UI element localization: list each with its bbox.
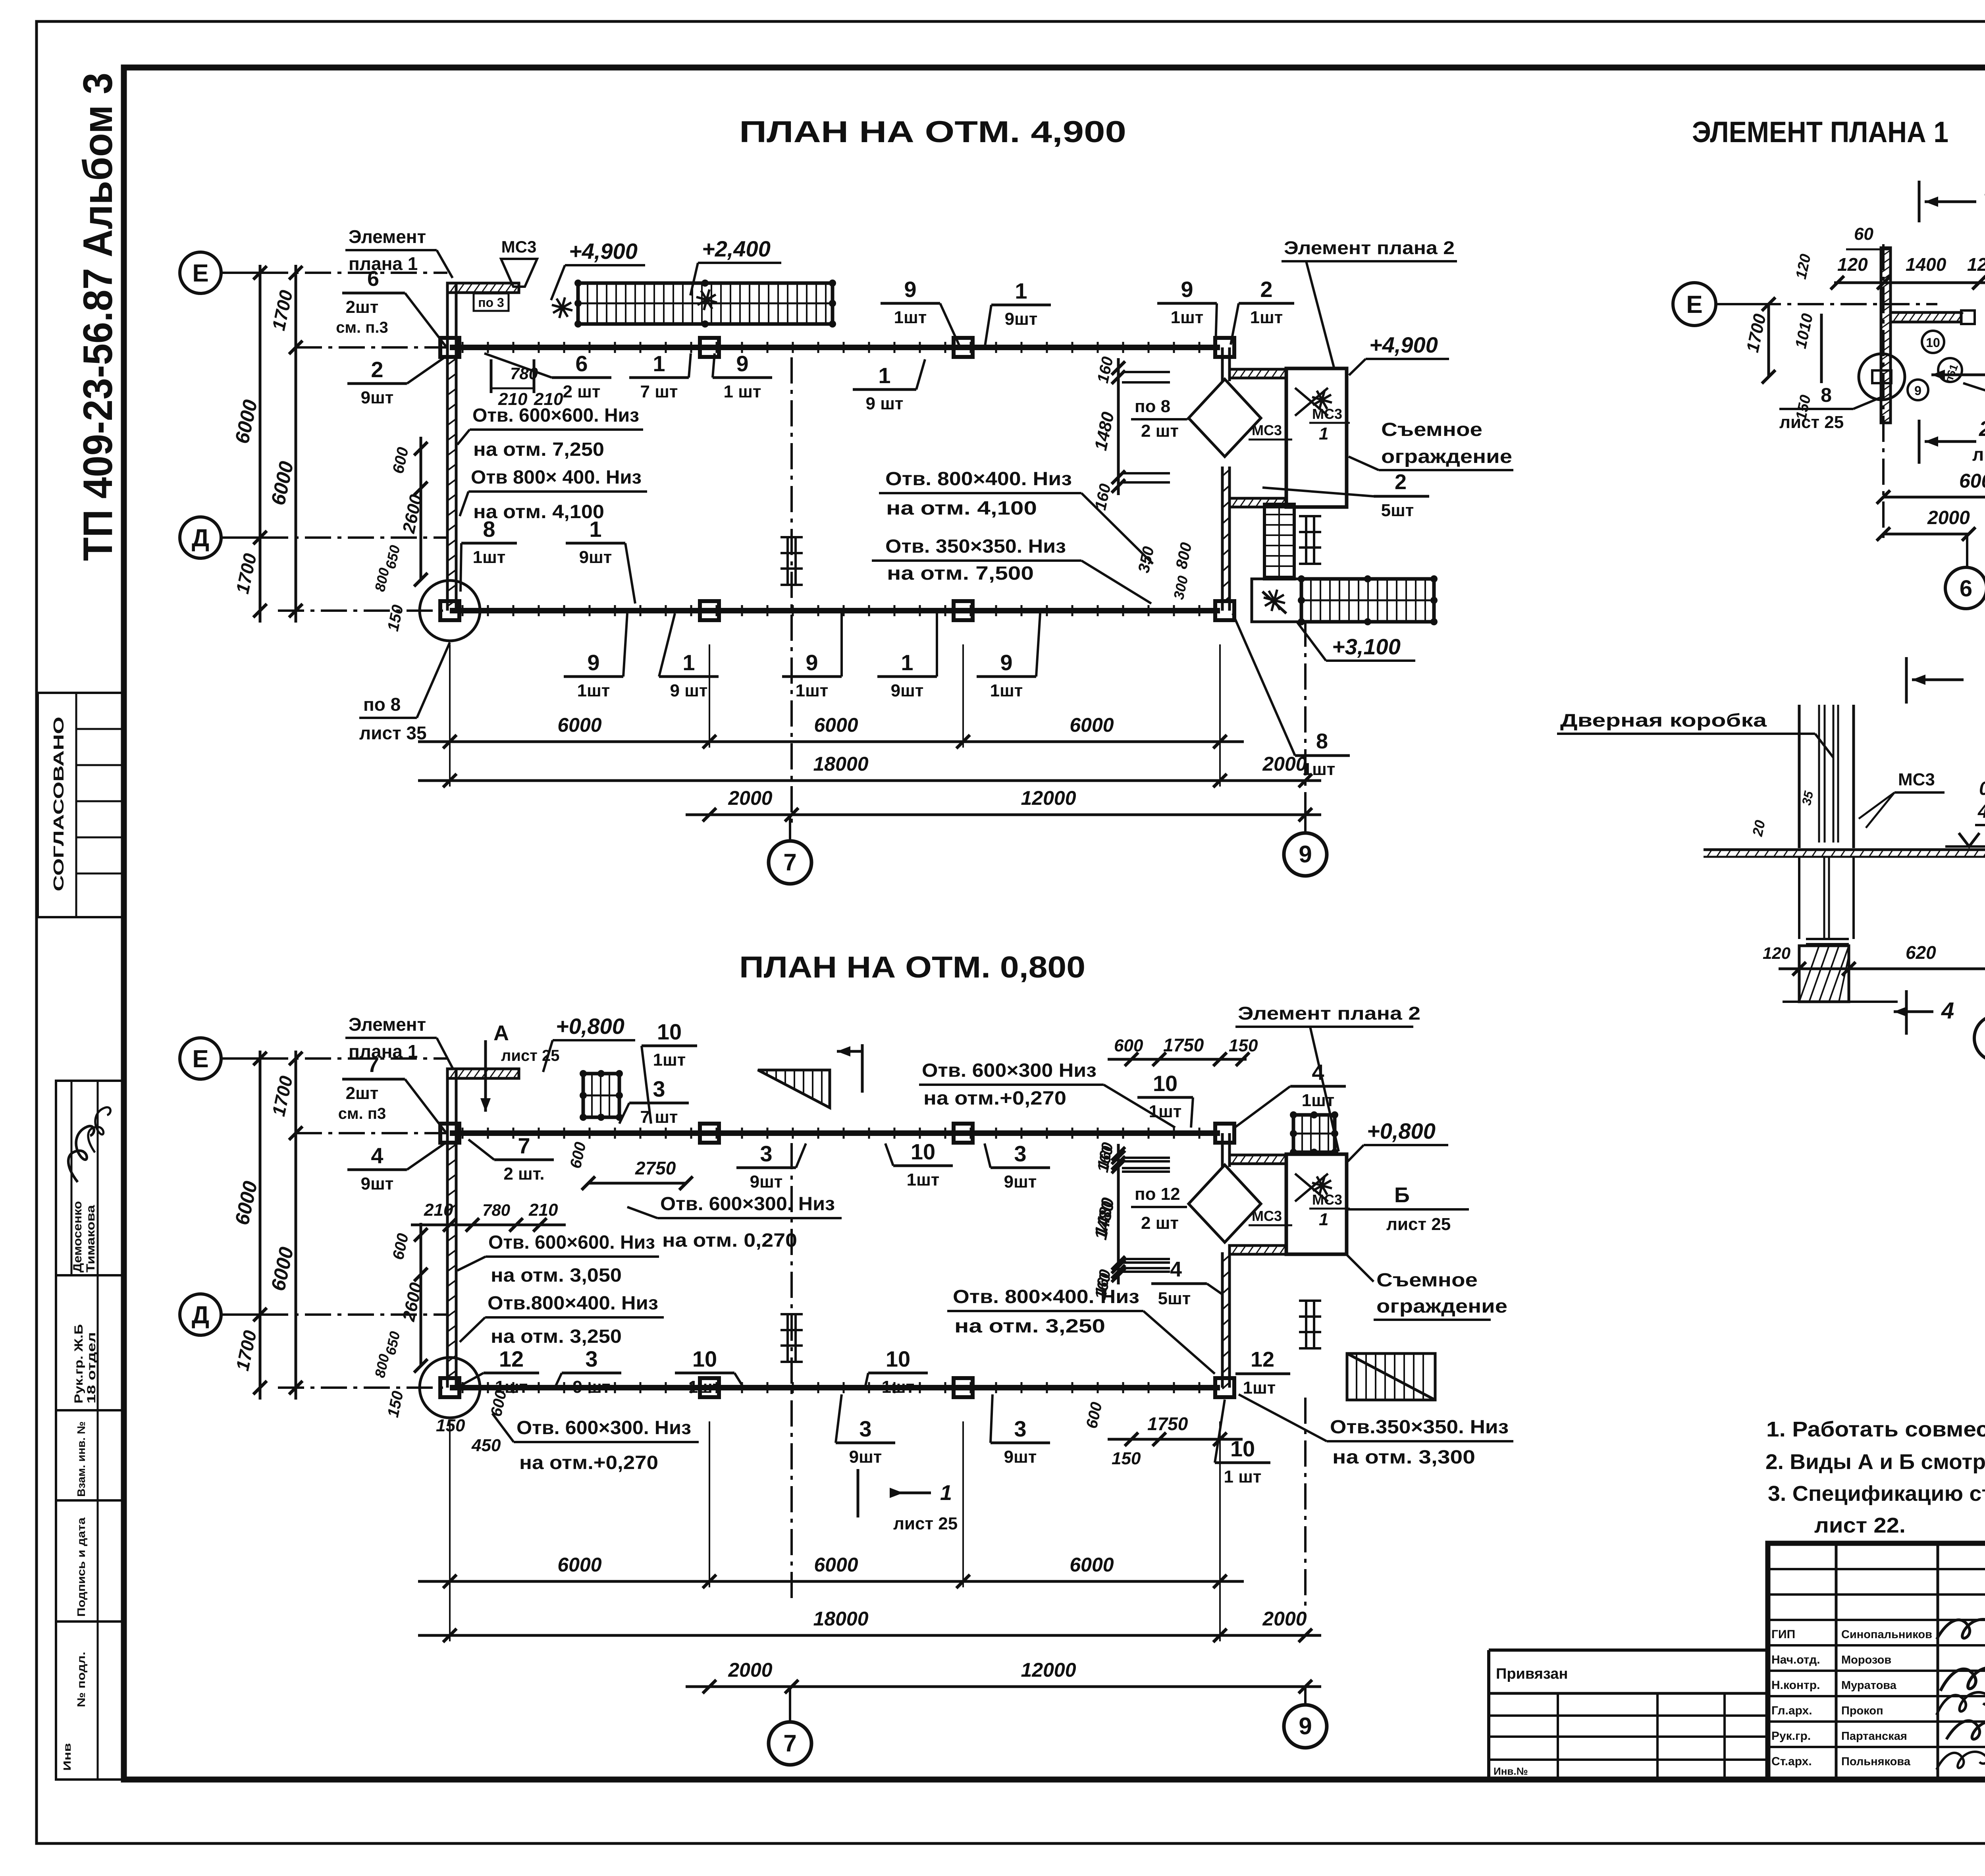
snowflake on platform [1312, 397, 1332, 403]
svg-text:5шт: 5шт [1381, 501, 1414, 520]
triangle grate top middle [758, 1070, 830, 1108]
svg-text:1шт: 1шт [577, 681, 610, 700]
column bottom axis 3 [954, 601, 973, 620]
svg-text:МС3: МС3 [1252, 1208, 1282, 1224]
svg-text:А: А [493, 1021, 509, 1045]
corner column bottom-left with circle [440, 1378, 459, 1397]
section mark 1 list 25 [857, 1469, 860, 1517]
UPPER PLAN plan at +4.900 [180, 226, 1513, 884]
stamp column lines [1835, 1543, 1838, 1780]
svg-text:Съемное: Съемное [1381, 419, 1482, 440]
svg-text:на отм. 3,250: на отм. 3,250 [491, 1326, 622, 1347]
svg-text:МС3: МС3 [1312, 1192, 1342, 1208]
svg-text:9: 9 [587, 650, 599, 675]
svg-text:6000: 6000 [1070, 1554, 1114, 1576]
corner column top-right [1215, 1124, 1234, 1143]
svg-text:4,900: 4,900 [1977, 801, 1985, 822]
svg-text:1 шт: 1 шт [724, 382, 761, 401]
H column on axis 7 [786, 537, 789, 585]
svg-text:Отв.350×350. Низ: Отв.350×350. Низ [1330, 1417, 1509, 1438]
axis line D [262, 1313, 447, 1316]
svg-text:ТП 409-23-56.87 Альбом 3: ТП 409-23-56.87 Альбом 3 [75, 73, 121, 561]
axis circle D [180, 1294, 221, 1335]
circled 10 [1922, 331, 1944, 353]
svg-text:ПЛАН НА ОТМ. 4,900: ПЛАН НА ОТМ. 4,900 [739, 115, 1126, 149]
column bottom axis 3 [954, 1378, 973, 1397]
axis line E [262, 1057, 447, 1060]
svg-text:9шт: 9шт [849, 1447, 882, 1467]
svg-text:1шт: 1шт [473, 548, 506, 567]
hatched pier [1799, 946, 1849, 1002]
section mark 2 list 25 bottom [1918, 420, 1921, 464]
wall axis line top [296, 1132, 447, 1134]
svg-text:9: 9 [736, 351, 748, 376]
svg-text:+2,400: +2,400 [702, 236, 771, 261]
svg-text:4: 4 [371, 1143, 383, 1168]
privyazan attach box [1489, 1648, 1768, 1652]
svg-text:Д: Д [192, 524, 209, 552]
svg-text:9: 9 [1181, 277, 1193, 302]
recess diamond [1189, 1165, 1261, 1242]
left wall [446, 1133, 449, 1388]
svg-text:Элемент: Элемент [349, 226, 426, 247]
dash-dot axis vertical detail1 [1882, 244, 1885, 540]
svg-text:3: 3 [585, 1346, 597, 1371]
svg-text:Элемент плана 2: Элемент плана 2 [1284, 237, 1455, 258]
svg-text:на отм.+0,270: на отм.+0,270 [923, 1088, 1066, 1109]
dimension chain 2000 / 12000 [686, 1685, 1321, 1688]
recess diamond [1189, 379, 1261, 457]
svg-text:7 шт: 7 шт [640, 1107, 678, 1127]
svg-text:0,800: 0,800 [1979, 778, 1985, 799]
top-left wall extension [446, 1069, 449, 1133]
svg-text:+4,900: +4,900 [1369, 332, 1438, 357]
svg-text:+0,800: +0,800 [1367, 1118, 1436, 1143]
svg-text:лист 25: лист 25 [1779, 413, 1844, 432]
svg-text:Отв 800× 400. Низ: Отв 800× 400. Низ [471, 467, 642, 488]
svg-text:60: 60 [1854, 224, 1873, 244]
svg-text:1: 1 [940, 1481, 952, 1505]
svg-text:1750: 1750 [1163, 1035, 1204, 1055]
svg-text:10: 10 [657, 1019, 682, 1044]
svg-text:1шт: 1шт [1303, 760, 1336, 779]
svg-text:2: 2 [1395, 470, 1407, 494]
svg-text:6000: 6000 [557, 714, 601, 736]
svg-text:на отм. 7,500: на отм. 7,500 [887, 563, 1034, 584]
svg-text:9: 9 [1299, 1713, 1312, 1739]
svg-text:Прокоп: Прокоп [1841, 1704, 1883, 1717]
dimension chain 18000 / 2000 [418, 1634, 1321, 1637]
platform top hatched band [1230, 1155, 1286, 1164]
svg-text:2000: 2000 [728, 787, 772, 809]
svg-text:150: 150 [1229, 1036, 1258, 1055]
removable platform [1286, 1154, 1347, 1254]
svg-text:2 шт: 2 шт [1141, 1213, 1179, 1233]
ruk.gr. box [56, 1275, 124, 1410]
svg-text:9: 9 [1299, 841, 1312, 868]
svg-text:1шт: 1шт [796, 681, 829, 700]
circled P61 [1938, 358, 1962, 382]
svg-text:1шт: 1шт [882, 1377, 915, 1397]
svg-text:на отм. 3,300: на отм. 3,300 [1332, 1447, 1475, 1468]
section mark 4 bottom [1905, 990, 1908, 1035]
svg-text:3: 3 [760, 1141, 772, 1166]
svg-text:1: 1 [682, 650, 695, 675]
axis circle E [180, 1038, 221, 1079]
right wall [1221, 347, 1224, 381]
svg-text:9: 9 [904, 277, 916, 302]
second vertical dimension line 1700/6000 [295, 265, 297, 623]
axis circle 6 [1966, 534, 1968, 567]
platform bottom hatched band [1230, 1246, 1286, 1254]
notes list [1765, 1417, 1985, 1537]
stair grating top [578, 283, 833, 324]
column top axis 2 [700, 1124, 719, 1143]
bottom platform with snowflake [1252, 579, 1301, 622]
soglasovano box [38, 693, 124, 917]
svg-text:см. п.3: см. п.3 [336, 319, 388, 336]
svg-text:Рук.гр. Ж.Б: Рук.гр. Ж.Б [72, 1324, 85, 1404]
svg-text:2 шт: 2 шт [1141, 421, 1179, 441]
axis line E [262, 272, 447, 274]
top-left wall extension [446, 283, 449, 347]
svg-text:по 12: по 12 [1135, 1184, 1180, 1204]
7 axis line [790, 1143, 793, 1602]
svg-text:6: 6 [1960, 576, 1972, 602]
svg-text:10: 10 [692, 1346, 717, 1371]
svg-text:9шт: 9шт [1004, 1172, 1037, 1192]
svg-text:Е: Е [192, 1045, 208, 1073]
column bottom axis 2 [700, 1378, 719, 1397]
svg-text:МС3: МС3 [1898, 770, 1935, 789]
svg-text:9шт: 9шт [579, 548, 612, 567]
svg-text:5шт: 5шт [1158, 1289, 1191, 1308]
svg-text:9шт: 9шт [891, 681, 924, 700]
svg-text:7: 7 [783, 849, 796, 875]
floor line double [1704, 848, 1985, 851]
column top axis 3 [954, 338, 973, 357]
svg-text:Инв: Инв [61, 1743, 73, 1771]
bottom stair grating right [1301, 579, 1434, 622]
svg-text:9шт: 9шт [750, 1172, 783, 1192]
svg-text:2: 2 [1260, 277, 1272, 302]
svg-text:на отм.+0,270: на отм.+0,270 [519, 1452, 658, 1473]
po 3 label box [474, 293, 509, 311]
removable platform [1286, 368, 1347, 507]
svg-text:1. Работать совместно с листом: 1. Работать совместно с листом 25 [1766, 1417, 1985, 1441]
svg-text:1шт: 1шт [688, 1377, 721, 1397]
dimension chain 18000 / 2000 [418, 779, 1321, 782]
svg-text:ГИП: ГИП [1771, 1628, 1795, 1641]
svg-text:1шт: 1шт [894, 308, 927, 327]
svg-text:1: 1 [878, 363, 890, 388]
column top axis 2 [700, 338, 719, 357]
svg-text:Элемент плана 2: Элемент плана 2 [1238, 1003, 1420, 1024]
svg-text:на отм. 3,250: на отм. 3,250 [954, 1316, 1105, 1337]
svg-text:Отв. 800×400. Низ: Отв. 800×400. Низ [953, 1286, 1139, 1307]
triangle grate bottom right [1347, 1353, 1435, 1400]
axis circle E detail1 [1673, 283, 1716, 326]
svg-text:6: 6 [575, 351, 588, 376]
svg-text:6000: 6000 [1959, 470, 1985, 492]
svg-text:+0,800: +0,800 [556, 1014, 624, 1039]
svg-text:2750: 2750 [635, 1158, 676, 1178]
column flange [1806, 938, 1849, 940]
svg-text:7: 7 [367, 1053, 379, 1077]
svg-text:1750: 1750 [1147, 1413, 1188, 1434]
svg-text:Тимакова: Тимакова [84, 1205, 97, 1273]
svg-text:1шт: 1шт [907, 1170, 940, 1190]
svg-text:10: 10 [911, 1139, 935, 1164]
H column lower right [1305, 1301, 1307, 1348]
axis circle 7 [769, 1722, 811, 1765]
svg-text:1шт: 1шт [653, 1050, 686, 1070]
vertical dim 160 1480 160 [1117, 1144, 1120, 1281]
svg-text:+4,900: +4,900 [569, 239, 638, 264]
wall axis line bottom [278, 1386, 447, 1389]
svg-text:Синопальников: Синопальников [1841, 1628, 1932, 1641]
dimension chain 2000 / 12000 [686, 814, 1321, 816]
svg-text:Взам. инв. №: Взам. инв. № [75, 1421, 87, 1497]
svg-text:Подпись и дата: Подпись и дата [75, 1517, 87, 1617]
section mark 4 with arrow top [1905, 657, 1908, 704]
svg-text:9 шт: 9 шт [573, 1377, 611, 1397]
svg-text:Б: Б [1394, 1183, 1410, 1207]
svg-text:Муратова: Муратова [1841, 1679, 1897, 1692]
svg-text:18 отдел: 18 отдел [85, 1332, 98, 1404]
svg-text:Демосенко: Демосенко [71, 1201, 84, 1273]
svg-text:Е: Е [192, 260, 208, 287]
top wall [450, 1130, 1220, 1136]
X cross on platform [1295, 388, 1328, 416]
H column on axis 7 [786, 1314, 789, 1362]
svg-text:9шт: 9шт [361, 388, 394, 407]
svg-text:Отв. 600×600. Низ: Отв. 600×600. Низ [488, 1232, 655, 1253]
wall axis line bottom [278, 609, 447, 612]
vertical wall hatched detail1 [1881, 248, 1891, 423]
svg-text:18000: 18000 [813, 753, 868, 775]
svg-text:Отв. 600×300. Низ: Отв. 600×300. Низ [516, 1417, 691, 1438]
svg-text:9: 9 [806, 650, 818, 675]
svg-text:Привязан: Привязан [1496, 1666, 1568, 1682]
svg-text:1шт: 1шт [990, 681, 1023, 700]
signature box [56, 1081, 124, 1275]
corner column bottom-right [1215, 1378, 1234, 1397]
svg-text:9шт: 9шт [361, 1174, 394, 1193]
axis circle 9 [1284, 833, 1327, 876]
svg-text:по 8: по 8 [1135, 397, 1170, 416]
snowflake on platform [1312, 1183, 1332, 1188]
stair grate above platform lower [1293, 1115, 1335, 1152]
inv no podl box [56, 1621, 124, 1780]
svg-text:на отм. 3,050: на отм. 3,050 [491, 1265, 622, 1286]
platform top hatched band [1230, 369, 1286, 378]
DETAIL node 1 door frame section [1557, 640, 1985, 1061]
svg-text:1шт: 1шт [1243, 1378, 1276, 1398]
svg-text:4: 4 [1941, 998, 1954, 1024]
svg-text:210: 210 [528, 1200, 558, 1220]
svg-text:Партанская: Партанская [1841, 1730, 1907, 1743]
svg-text:9шт: 9шт [1004, 1447, 1037, 1467]
horizontal wall hatched detail1 [1891, 312, 1961, 322]
svg-text:7: 7 [518, 1133, 530, 1158]
svg-text:1шт: 1шт [1250, 308, 1283, 327]
svg-text:Отв. 350×350. Низ: Отв. 350×350. Низ [885, 536, 1066, 557]
snowflake mark [552, 305, 572, 310]
svg-text:12: 12 [1251, 1348, 1274, 1371]
DETAIL element plana 1 [1673, 174, 1985, 609]
axis line E detail1 [1755, 303, 1937, 305]
horizontal dimension chain 6000x3 [418, 740, 1244, 743]
signatures scribbles stamp [1935, 1614, 1985, 1642]
svg-text:3: 3 [653, 1076, 665, 1101]
svg-text:лист 25: лист 25 [893, 1514, 958, 1533]
svg-text:210: 210 [424, 1200, 453, 1220]
svg-text:Отв. 600×600. Низ: Отв. 600×600. Низ [472, 405, 639, 426]
svg-text:Н.контр.: Н.контр. [1771, 1679, 1820, 1692]
svg-text:МС3: МС3 [1252, 422, 1282, 438]
squiggle arrow on platform [1262, 592, 1286, 613]
svg-text:12: 12 [499, 1346, 524, 1371]
column web below floor [1798, 857, 1800, 939]
left wall [446, 347, 449, 611]
vzam inv box [56, 1410, 124, 1500]
corner column bottom-right [1215, 601, 1234, 620]
svg-text:МС3: МС3 [1312, 406, 1342, 422]
svg-text:8: 8 [483, 517, 495, 542]
svg-text:9 шт: 9 шт [866, 394, 904, 413]
axis circle 7 [769, 841, 811, 884]
svg-text:ограждение: ограждение [1381, 446, 1512, 467]
svg-text:2шт: 2шт [346, 297, 379, 317]
stamp signer rows [1768, 1644, 1985, 1647]
svg-text:Дверная коробка: Дверная коробка [1560, 710, 1767, 731]
svg-text:Польнякова: Польнякова [1841, 1755, 1911, 1768]
stamp top small rows [1768, 1568, 1985, 1570]
node circle [1859, 354, 1905, 400]
svg-text:1шт: 1шт [1171, 308, 1204, 327]
platform bottom hatched band [1230, 498, 1286, 507]
svg-text:по 3: по 3 [478, 295, 504, 310]
svg-text:МС3: МС3 [501, 237, 537, 256]
axis circle E [180, 252, 221, 293]
svg-text:9: 9 [1000, 650, 1012, 675]
svg-text:6000: 6000 [1070, 714, 1114, 736]
podpis i data box [56, 1500, 124, 1621]
second vertical dimension line 1700/6000 [295, 1051, 297, 1400]
svg-text:10: 10 [1926, 335, 1940, 350]
svg-text:Отв. 600×300 Низ: Отв. 600×300 Низ [922, 1060, 1097, 1081]
svg-text:СОГЛАСОВАНО: СОГЛАСОВАНО [50, 717, 67, 891]
TITLE BLOCK main stamp [1489, 1543, 1985, 1780]
svg-text:120: 120 [1967, 254, 1985, 275]
svg-text:6: 6 [367, 267, 379, 291]
ladder to platform [1264, 504, 1294, 579]
corner column bottom-left with circle [440, 601, 459, 620]
wall axis line top [296, 346, 447, 349]
column bottom axis 2 [700, 601, 719, 620]
svg-text:2шт: 2шт [346, 1084, 379, 1103]
svg-text:120: 120 [1837, 254, 1868, 275]
svg-text:см. п3: см. п3 [338, 1105, 386, 1122]
svg-text:2. Виды А и Б смотрите лист 25: 2. Виды А и Б смотрите лист 25 [1765, 1450, 1985, 1474]
right wall [1221, 1133, 1224, 1167]
horizontal dimension chain 6000x3 [418, 1580, 1244, 1583]
svg-text:12000: 12000 [1021, 1659, 1076, 1681]
svg-text:Морозов: Морозов [1841, 1654, 1891, 1666]
svg-text:120: 120 [1763, 944, 1790, 962]
svg-text:на отм. 0,270: на отм. 0,270 [662, 1230, 797, 1251]
axis line D [262, 536, 447, 539]
svg-text:1: 1 [589, 517, 601, 542]
svg-text:2: 2 [1979, 417, 1985, 441]
svg-text:Инв.№: Инв.№ [1494, 1765, 1528, 1777]
column at axis intersection top-left [440, 338, 459, 357]
svg-text:ЭЛЕМЕНТ ПЛАНА 1: ЭЛЕМЕНТ ПЛАНА 1 [1692, 116, 1948, 148]
svg-text:лист 25: лист 25 [1972, 444, 1985, 465]
svg-text:Съемное: Съемное [1376, 1270, 1478, 1291]
9 axis line [1304, 621, 1307, 833]
svg-text:лист 35: лист 35 [359, 723, 427, 743]
svg-text:плана 1: плана 1 [349, 253, 418, 274]
svg-text:450: 450 [471, 1436, 501, 1455]
svg-text:3: 3 [1014, 1141, 1026, 1166]
svg-text:1 шт: 1 шт [1224, 1467, 1262, 1487]
svg-text:600: 600 [1114, 1036, 1143, 1055]
axis circle 9 [1284, 1705, 1327, 1748]
bottom wall [450, 1385, 1220, 1390]
svg-text:12000: 12000 [1021, 787, 1076, 809]
svg-text:10: 10 [1230, 1436, 1255, 1461]
axis circle 9 node1 [1974, 1015, 1985, 1061]
bottom wall [450, 608, 1220, 613]
svg-text:3: 3 [859, 1416, 871, 1441]
dimension extension lines [449, 644, 451, 748]
svg-text:Е: Е [1686, 291, 1702, 318]
svg-text:Отв.800×400. Низ: Отв.800×400. Низ [488, 1293, 658, 1314]
X cross on platform [1295, 1174, 1328, 1201]
svg-text:9: 9 [1914, 384, 1921, 398]
svg-text:20: 20 [1749, 819, 1769, 838]
svg-text:6000: 6000 [814, 1554, 858, 1576]
svg-text:№ подл.: № подл. [75, 1652, 87, 1707]
axis circle D [180, 517, 221, 558]
left margin stamp column [38, 73, 124, 1780]
svg-text:3. Спецификацию стеновых панел: 3. Спецификацию стеновых панелей и элеме… [1768, 1482, 1985, 1506]
svg-text:плана 1: плана 1 [349, 1041, 418, 1062]
vertical dim 160 1480 160 [1117, 358, 1120, 495]
signature scribbles [64, 1123, 95, 1183]
left vertical dimension line 6000/1700 [259, 1051, 262, 1400]
svg-text:Ст.арх.: Ст.арх. [1771, 1755, 1812, 1768]
svg-text:2 шт.: 2 шт. [503, 1164, 544, 1184]
svg-text:2: 2 [371, 357, 383, 382]
9 axis line [1304, 1398, 1307, 1610]
svg-text:7 шт: 7 шт [640, 382, 678, 401]
7 axis line [790, 357, 793, 825]
corner column top-right [1215, 338, 1234, 357]
svg-text:лист 22.: лист 22. [1814, 1514, 1906, 1537]
svg-text:ограждение: ограждение [1376, 1296, 1507, 1317]
svg-text:Нач.отд.: Нач.отд. [1771, 1653, 1820, 1666]
door frame verticals [1798, 705, 1801, 848]
svg-text:620: 620 [1906, 942, 1936, 963]
H column right [1305, 516, 1307, 564]
svg-text:1: 1 [901, 650, 913, 675]
svg-text:3: 3 [1014, 1416, 1026, 1441]
arrow left mid [1931, 374, 1985, 376]
svg-text:4: 4 [1170, 1257, 1182, 1281]
